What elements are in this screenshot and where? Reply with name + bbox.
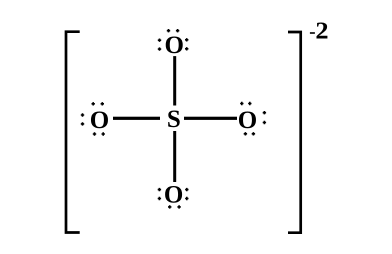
svg-text:O: O [90, 107, 109, 134]
svg-text:O: O [164, 181, 183, 208]
svg-text:2: 2 [315, 18, 328, 44]
svg-text:O: O [164, 32, 183, 59]
svg-text:O: O [238, 107, 257, 134]
svg-text:S: S [167, 106, 181, 133]
